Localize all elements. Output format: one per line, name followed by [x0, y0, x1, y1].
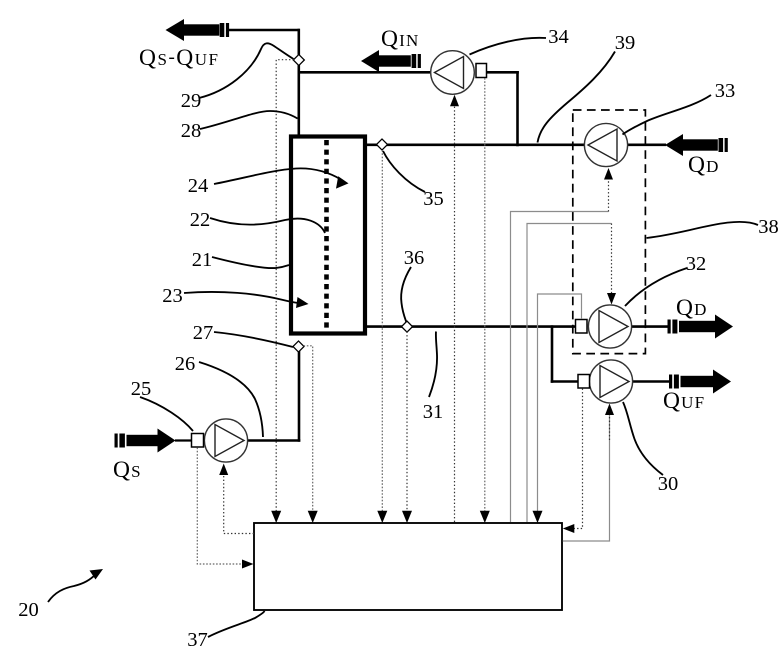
control line: node 29 to controller (dotted) [276, 60, 294, 513]
node 36 diamond [401, 321, 412, 332]
wire: dialysate line y=145 membrane to pump 33 [366, 144, 585, 147]
leader 23 with arrowhead [184, 292, 298, 303]
pump 32 sensor square [576, 320, 588, 334]
leader 25 [140, 397, 193, 431]
leader 28 [200, 111, 298, 129]
svg-text:29: 29 [181, 90, 202, 112]
pump 25 sensor square [192, 434, 204, 448]
wire: riser x=299 up to node 27 [298, 351, 301, 442]
leader 20 squiggle arrow [48, 574, 96, 602]
control line: controller to pump 32 (gray riser + dotted head) [527, 224, 612, 523]
leader 30 [623, 402, 663, 475]
leader 24 with arrowhead [214, 168, 341, 184]
svg-text:22: 22 [190, 209, 211, 231]
pump 30 sensor square [578, 375, 590, 389]
leader 29 [199, 43, 294, 98]
dashed enclosure 38 [573, 110, 646, 354]
leader 26 [199, 362, 263, 437]
pump 33 [584, 123, 627, 166]
svg-text:26: 26 [175, 353, 196, 375]
svg-text:32: 32 [686, 253, 707, 275]
svg-text:20: 20 [18, 599, 39, 621]
wire: pump 30 outlet to QUF arrow [633, 380, 671, 383]
leader 35 [383, 151, 425, 192]
control line: node 36 to controller (dotted) [406, 332, 408, 514]
control line: pump 32 sensor square to controller [538, 294, 582, 513]
svg-text:35: 35 [423, 188, 444, 210]
leader 34 [470, 38, 547, 55]
pump 34 sensor square [476, 64, 487, 78]
leader 37 [208, 611, 265, 637]
svg-text:24: 24 [188, 175, 209, 197]
svg-text:30: 30 [658, 473, 679, 495]
leader 31 [429, 332, 437, 398]
leader 33 [623, 95, 712, 135]
control line: node 35 to controller [381, 150, 383, 513]
wire: branch down x=552 [551, 325, 554, 383]
block arrow QD bottom (right) [668, 315, 734, 339]
node 27 diamond [293, 341, 304, 352]
wire: lower dialysate line y=327 membrane to pump 32 [366, 325, 576, 328]
svg-text:31: 31 [423, 401, 444, 423]
control line: controller to pump 33 (gray riser + dotted head) [511, 212, 609, 523]
svg-text:25: 25 [131, 378, 152, 400]
svg-text:28: 28 [181, 120, 202, 142]
svg-text:36: 36 [404, 247, 425, 269]
svg-text:21: 21 [192, 249, 213, 271]
wire: pump 34 outlet to corner [486, 71, 518, 74]
pump 25 [192, 419, 248, 462]
leader 32 [625, 268, 687, 306]
leader 22 [210, 218, 325, 233]
control line: pump 25 sensor square to controller [197, 448, 242, 565]
controller box 37 [254, 523, 562, 610]
node 29 diamond [293, 54, 304, 65]
svg-text:27: 27 [193, 322, 214, 344]
block arrow QS-QUF (left) [166, 19, 230, 41]
wire: branch to pump 30 square [551, 380, 579, 383]
membrane unit 21 [291, 137, 365, 334]
pump 34 [431, 51, 487, 95]
block arrow QS (right) [115, 429, 176, 453]
block arrow QD top (left) [665, 134, 728, 156]
svg-text:37: 37 [187, 629, 208, 651]
membrane 22: dashed separation line [324, 140, 329, 332]
svg-text:23: 23 [162, 285, 183, 307]
block arrow QUF (right) [669, 370, 731, 394]
wire: pump 32 outlet to QD arrow [631, 325, 669, 328]
svg-text:39: 39 [615, 32, 636, 54]
wire: vertical pipe x=298.5 from y=30 to membrane top [297, 29, 300, 136]
control line: node 27 to controller [304, 346, 313, 513]
node 35 diamond [376, 139, 387, 150]
leader 27 [214, 332, 293, 347]
leader 38 [647, 222, 759, 238]
control line: controller to pump 34 (dotted command) [454, 105, 456, 522]
pump 30 [578, 360, 633, 403]
wire: horizontal pipe y=72 to pump 34 [298, 71, 432, 74]
control line: pump 30 sensor square to controller (dotted) [573, 389, 583, 529]
wire: QS arrow to pump 25 square [175, 439, 192, 441]
wire: vertical x=517.5 from y=72 to y=145 [516, 71, 519, 146]
wire: pump 33 to QD inlet arrow [627, 144, 666, 147]
block arrow QIN (left) [361, 50, 421, 72]
wire: QS-QUF outlet horizontal y=30 [228, 29, 300, 32]
control line: pump 34 sensor square to controller [484, 78, 486, 513]
svg-text:38: 38 [758, 216, 779, 238]
svg-text:34: 34 [548, 26, 569, 48]
leader 39 [538, 52, 616, 143]
control line: controller to pump 25 (dotted command) [224, 474, 254, 534]
leader 36 [401, 267, 411, 322]
wire: pump 25 outlet to riser [247, 439, 300, 442]
pump 32 [576, 305, 632, 348]
svg-text:33: 33 [715, 80, 736, 102]
leader 21 [212, 257, 289, 268]
control line: controller to pump 30 [563, 414, 610, 541]
